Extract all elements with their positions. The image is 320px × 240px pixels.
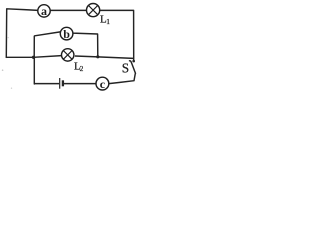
lamp L2 (circle with X) xyxy=(61,49,73,61)
label L2 xyxy=(74,60,84,73)
svg-text:S: S xyxy=(122,61,129,76)
scan speckle 1 xyxy=(2,69,4,71)
ammeter a (circle with letter a) xyxy=(38,4,50,18)
svg-text:c: c xyxy=(100,77,106,91)
scan speckle 2 xyxy=(8,37,9,38)
wire: ammeter c to bottom right corner, up to switch xyxy=(109,74,135,84)
wire: lamp L2 right to right edge xyxy=(75,56,134,58)
switch upper terminal dot xyxy=(132,60,135,63)
wire: outer left edge + top wire + right edge xyxy=(6,9,133,61)
svg-text:2: 2 xyxy=(80,64,84,73)
label L1 xyxy=(100,13,110,26)
wire: branch b vertical + horizontal to right vertical xyxy=(34,32,98,57)
node: junction dot left (battery/b/L2/left-edge) xyxy=(32,56,35,59)
wire: battery to ammeter c xyxy=(63,83,96,85)
lamp L1 (circle with X) xyxy=(87,4,100,17)
battery cell: long plate xyxy=(59,78,61,89)
scan speckle 3 xyxy=(11,88,12,89)
wire: junction down to battery row, bottom wire to battery xyxy=(34,57,59,84)
svg-text:1: 1 xyxy=(106,17,110,26)
battery cell: short thick plate xyxy=(62,80,64,86)
switch S blade with hook tip xyxy=(130,61,136,74)
svg-text:b: b xyxy=(63,27,70,41)
svg-text:a: a xyxy=(41,4,47,18)
ammeter c (circle with letter c) xyxy=(96,77,109,91)
wire: mid horizontal from left edge to junction and to lamp L2 xyxy=(6,56,61,58)
ammeter b (circle with letter b) xyxy=(60,27,73,41)
node: junction dot right (b branch joins L2 wire) xyxy=(96,55,99,58)
